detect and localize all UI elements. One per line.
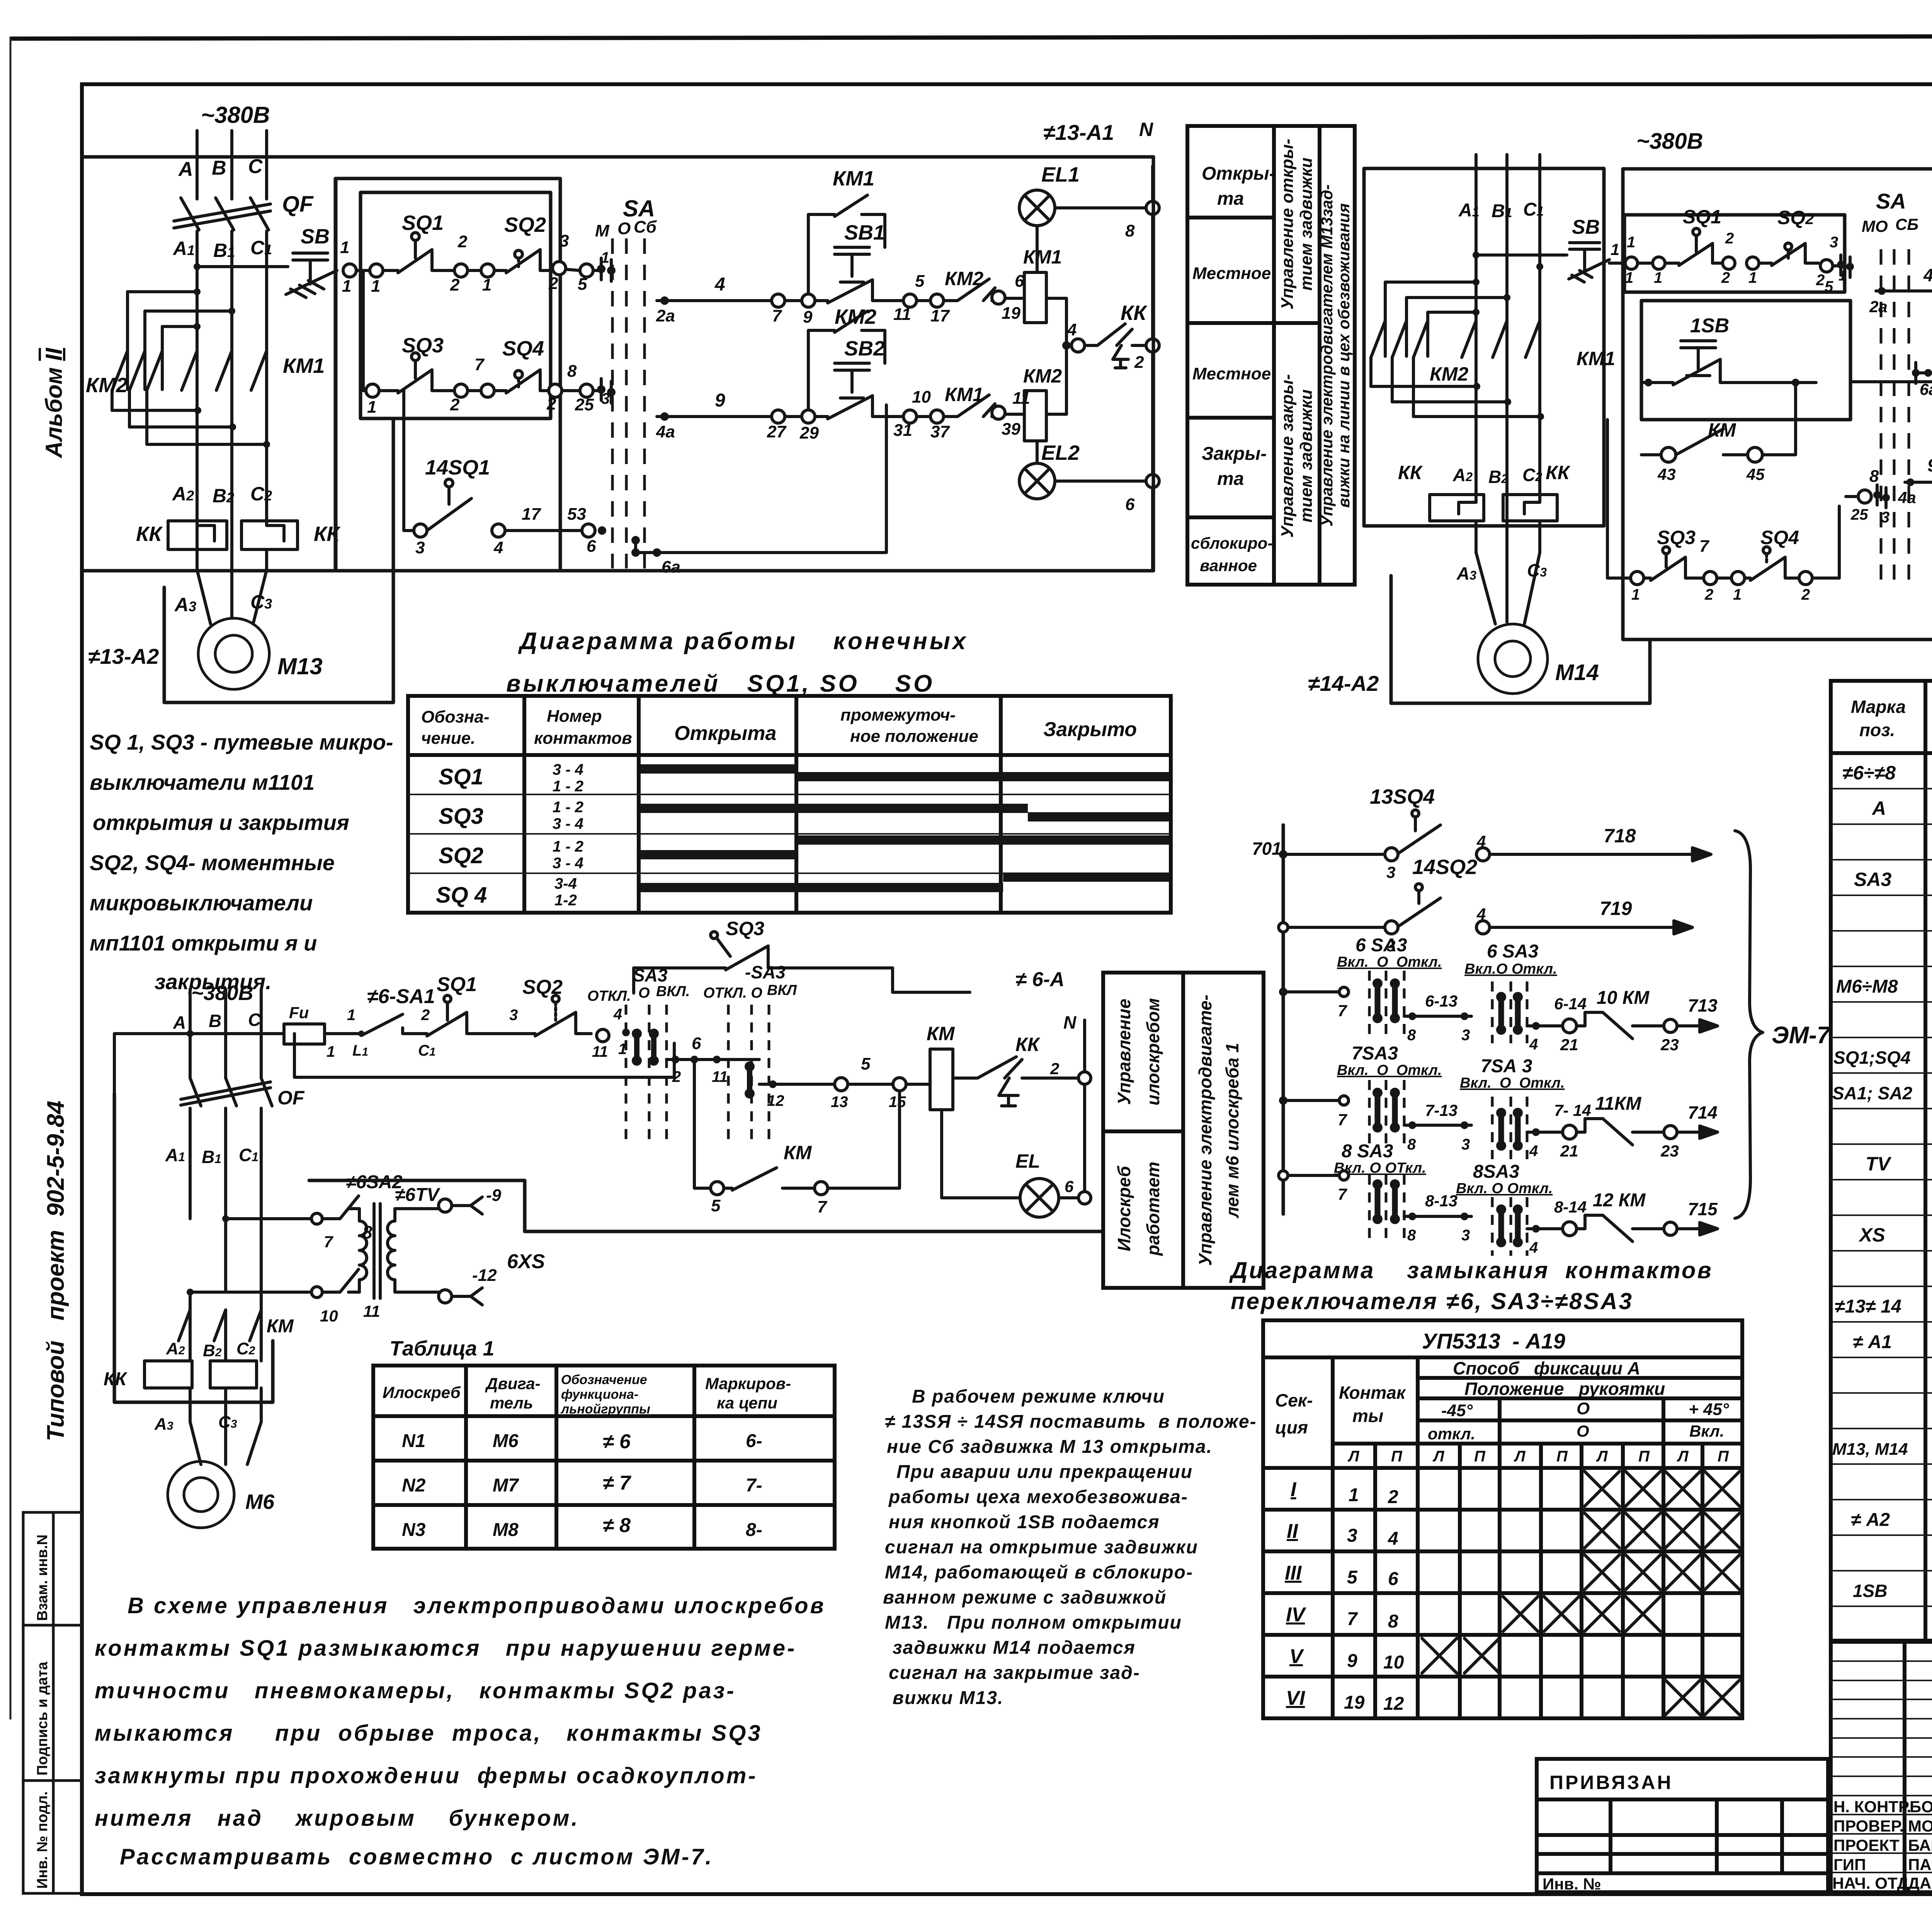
svg-text:3: 3 — [1347, 1526, 1357, 1546]
row A circles 7 9 — [772, 294, 815, 327]
svg-text:ванное: ванное — [1200, 556, 1257, 575]
svg-text:ТV: ТV — [1866, 1153, 1892, 1175]
main bus wire to SB — [194, 263, 288, 270]
svg-text:5: 5 — [1347, 1567, 1358, 1588]
svg-text:8-13: 8-13 — [1425, 1192, 1458, 1210]
selector SA3 dashed group A — [626, 1005, 667, 1142]
svg-text:ДАНИЛОВ: ДАНИЛОВ — [1908, 1874, 1932, 1892]
control outer box 13 — [336, 179, 560, 571]
svg-text:29: 29 — [799, 423, 819, 442]
momentary switch SQ2 — [494, 213, 552, 273]
net 15 wire — [1850, 352, 1932, 408]
svg-text:2: 2 — [450, 276, 460, 294]
svg-text:Вкл. О Откл.: Вкл. О Откл. — [1460, 1075, 1565, 1091]
svg-text:6а: 6а — [662, 558, 680, 577]
row 715 plungers A — [1372, 1179, 1400, 1224]
svg-text:4: 4 — [1923, 265, 1932, 285]
svg-text:2а: 2а — [656, 306, 675, 325]
svg-text:-SА3: -SА3 — [745, 962, 786, 982]
svg-text:работает: работает — [1143, 1162, 1163, 1256]
svg-text:1: 1 — [1625, 269, 1633, 286]
svg-text:21: 21 — [1560, 1142, 1578, 1160]
svg-text:7-13: 7-13 — [1425, 1101, 1458, 1119]
svg-text:замкнуты при прохождении фе: замкнуты при прохождении фермы осадкоупл… — [95, 1763, 758, 1788]
pushbutton SB2 — [815, 337, 903, 419]
svg-text:≠ 13SЯ ÷ 14SЯ поставить в по: ≠ 13SЯ ÷ 14SЯ поставить в положе- — [885, 1412, 1257, 1432]
svg-text:Альбом II: Альбом II — [41, 347, 67, 459]
svg-text:ХS: ХS — [1858, 1224, 1885, 1246]
phase feeder wires 14 — [1476, 155, 1540, 309]
node 11 1 circle 6 — [592, 1006, 630, 1060]
Tablitsa 1 frame — [373, 1366, 835, 1549]
svg-text:ние Сб задвижка М 13 открыта: ние Сб задвижка М 13 открыта. — [887, 1437, 1213, 1457]
svg-text:8-14: 8-14 — [1554, 1198, 1587, 1216]
svg-text:М14, работающей в сблокиро-: М14, работающей в сблокиро- — [885, 1562, 1193, 1583]
svg-text:открытия и закрытия: открытия и закрытия — [93, 810, 349, 835]
svg-text:Л: Л — [1596, 1448, 1608, 1465]
svg-text:О: О — [1577, 1422, 1589, 1440]
svg-text:1 - 2: 1 - 2 — [553, 838, 583, 855]
contactor KM2 NC interlock row A — [944, 268, 995, 301]
svg-text:2: 2 — [1725, 230, 1734, 247]
svg-text:SQ3: SQ3 — [439, 804, 483, 829]
svg-text:Fu: Fu — [289, 1003, 309, 1022]
row 714 net 7-13 — [1404, 1101, 1471, 1153]
svg-text:7: 7 — [1338, 1002, 1347, 1020]
svg-text:SQ4: SQ4 — [502, 337, 544, 360]
UP5313 selector table frame — [1263, 1320, 1742, 1718]
row 714 dashed contacts — [1369, 1080, 1527, 1159]
svg-text:8: 8 — [1407, 1227, 1416, 1244]
svg-text:III: III — [1285, 1562, 1302, 1584]
svg-text:8: 8 — [1407, 1027, 1416, 1044]
svg-text:поз.: поз. — [1859, 720, 1895, 740]
svg-text:М13, М14: М13, М14 — [1832, 1440, 1908, 1459]
svg-text:8: 8 — [1869, 467, 1879, 486]
svg-text:мыкаются при обрыве трос: мыкаются при обрыве троса, контакты SQ3 — [95, 1721, 762, 1746]
svg-text:≠6ТV: ≠6ТV — [395, 1185, 440, 1205]
svg-text:Закры-: Закры- — [1202, 444, 1267, 464]
svg-text:контакты SQ1 размыкаются пр: контакты SQ1 размыкаются при нарушении г… — [95, 1636, 796, 1661]
svg-text:Инв. №: Инв. № — [1543, 1875, 1601, 1893]
svg-text:13: 13 — [831, 1094, 848, 1111]
svg-text:В схеме управления электроп: В схеме управления электроприводами илос… — [128, 1593, 826, 1618]
SQ3 state bars — [641, 804, 1028, 813]
svg-text:SQ3: SQ3 — [1657, 527, 1696, 548]
svg-text:1SВ: 1SВ — [1690, 315, 1729, 337]
svg-text:О: О — [1577, 1399, 1590, 1418]
svg-text:≠ А2: ≠ А2 — [1851, 1510, 1890, 1530]
svg-text:17: 17 — [930, 306, 950, 325]
row 715 output with contact 12KM — [1527, 1190, 1718, 1256]
note text about working mode — [883, 1386, 1257, 1708]
svg-text:SQ 4: SQ 4 — [436, 883, 487, 908]
svg-text:тием задвижки: тием задвижки — [1297, 158, 1316, 291]
svg-text:Способ фиксации А: Способ фиксации А — [1453, 1358, 1640, 1378]
svg-text:КМ2: КМ2 — [835, 305, 876, 328]
svg-text:9: 9 — [1347, 1651, 1357, 1671]
svg-text:5: 5 — [711, 1196, 721, 1215]
svg-text:25: 25 — [1850, 506, 1868, 523]
left margin stamp boxes — [23, 1512, 82, 1893]
transformer enclosure — [309, 1180, 525, 1231]
svg-text:14SQ1: 14SQ1 — [425, 456, 490, 479]
svg-text:В рабочем режиме ключи: В рабочем режиме ключи — [912, 1386, 1165, 1407]
svg-text:2: 2 — [1050, 1060, 1059, 1078]
svg-text:SВ: SВ — [301, 225, 330, 248]
svg-text:SВ2: SВ2 — [844, 337, 885, 360]
row B circles 27 29 — [767, 410, 819, 442]
svg-text:≠13-А2: ≠13-А2 — [88, 644, 159, 668]
svg-text:КМ: КМ — [784, 1142, 812, 1163]
rotated label box 6 — [1103, 973, 1264, 1288]
motor enclosure box — [164, 419, 393, 702]
BOM row lines — [1831, 789, 1932, 1606]
svg-text:1: 1 — [1748, 269, 1757, 286]
svg-text:N: N — [1139, 119, 1153, 140]
svg-text:задвижки М14 подается: задвижки М14 подается — [893, 1638, 1136, 1658]
svg-text:КМ2: КМ2 — [1023, 365, 1062, 387]
svg-text:3 - 4: 3 - 4 — [553, 761, 583, 778]
svg-text:КМ1: КМ1 — [283, 354, 325, 378]
svg-text:13SQ4: 13SQ4 — [1370, 785, 1435, 808]
svg-text:8 SА3: 8 SА3 — [1342, 1141, 1393, 1162]
svg-text:~380В: ~380В — [201, 102, 270, 128]
svg-text:17: 17 — [522, 505, 541, 524]
row B circles 31 37 — [893, 388, 950, 441]
contactor KM2 aux contact (seal-in) — [808, 305, 885, 410]
svg-text:сблокиро-: сблокиро- — [1191, 534, 1273, 552]
svg-text:Л: Л — [1677, 1448, 1689, 1465]
fuse Fu — [284, 1024, 350, 1044]
svg-text:2: 2 — [421, 1007, 430, 1024]
svg-text:Местное: Местное — [1192, 264, 1271, 283]
svg-text:КМ2: КМ2 — [1430, 363, 1468, 385]
svg-text:3: 3 — [1461, 1027, 1470, 1044]
svg-text:2: 2 — [1388, 1487, 1398, 1507]
svg-text:КК: КК — [1121, 301, 1148, 325]
svg-text:Обозначение: Обозначение — [561, 1372, 647, 1387]
svg-text:5: 5 — [861, 1054, 871, 1073]
svg-text:переключателя ≠6, SА3÷≠8SА3: переключателя ≠6, SА3÷≠8SА3 — [1231, 1288, 1633, 1314]
svg-text:вижки на линии в цех обезвожив: вижки на линии в цех обезвоживания — [1335, 203, 1353, 508]
svg-text:О: О — [617, 219, 631, 238]
svg-text:1: 1 — [1654, 269, 1662, 286]
svg-text:Контак: Контак — [1339, 1383, 1406, 1403]
svg-text:Сек-: Сек- — [1275, 1390, 1313, 1410]
svg-text:SQ1: SQ1 — [1683, 206, 1721, 228]
svg-text:ПАВЛОВА: ПАВЛОВА — [1908, 1855, 1932, 1874]
svg-text:Вкл. О Откл.: Вкл. О Откл. — [1456, 1180, 1553, 1197]
svg-text:8SА3: 8SА3 — [1473, 1162, 1519, 1182]
scan left edge line — [10, 37, 12, 1719]
svg-text:N: N — [1063, 1012, 1077, 1032]
svg-text:Диаграмма замыкания контак: Диаграмма замыкания контактов — [1229, 1257, 1713, 1283]
wire from box to SQ3 row 14 — [1606, 420, 1609, 578]
svg-text:лем м6 илоскреба 1: лем м6 илоскреба 1 — [1222, 1043, 1242, 1219]
svg-text:выключатели м1101: выключатели м1101 — [90, 770, 315, 794]
svg-text:≠13-А1: ≠13-А1 — [1043, 120, 1114, 145]
svg-text:8: 8 — [1407, 1136, 1416, 1153]
schematic 13 top border wire — [82, 155, 1153, 159]
svg-text:3: 3 — [1881, 509, 1889, 526]
contactor KM1 aux contact (seal-in) — [808, 167, 885, 294]
svg-text:В: В — [212, 157, 226, 179]
svg-text:39: 39 — [1002, 420, 1020, 439]
svg-text:Л: Л — [1514, 1448, 1526, 1465]
svg-text:СБ: СБ — [1895, 215, 1918, 233]
svg-text:КМ1: КМ1 — [1023, 246, 1062, 268]
svg-text:5: 5 — [915, 272, 925, 291]
svg-text:ния кнопкой 1SВ подается: ния кнопкой 1SВ подается — [889, 1512, 1160, 1532]
svg-text:7SА3: 7SА3 — [1352, 1043, 1398, 1064]
svg-text:8: 8 — [567, 362, 577, 381]
pushbutton 1SB — [1641, 315, 1816, 386]
svg-text:1: 1 — [1627, 234, 1635, 251]
svg-text:≠ А1: ≠ А1 — [1853, 1332, 1892, 1352]
svg-text:БОКОВА: БОКОВА — [1910, 1798, 1932, 1816]
svg-text:1: 1 — [1349, 1485, 1359, 1505]
BOM table frame — [1831, 681, 1932, 1641]
limit switch SQ1 6 — [413, 973, 489, 1059]
svg-text:9: 9 — [1927, 455, 1932, 475]
bypass switch SQ3 over dashed region — [634, 918, 970, 993]
svg-text:Таблица 1: Таблица 1 — [389, 1337, 495, 1360]
svg-text:715: 715 — [1688, 1199, 1718, 1219]
svg-text:КК: КК — [1015, 1034, 1041, 1055]
thermal heaters KK 6 — [104, 1361, 261, 1464]
svg-text:2: 2 — [546, 395, 556, 413]
svg-text:Марка: Марка — [1851, 697, 1906, 717]
svg-text:Двига-: Двига- — [485, 1374, 541, 1393]
svg-text:Инв. № подл.: Инв. № подл. — [34, 1791, 51, 1889]
X marks rows I-III — [1585, 1471, 1740, 1590]
svg-text:КК: КК — [1398, 462, 1423, 483]
svg-text:3: 3 — [1461, 1136, 1470, 1153]
limit switch SQ1 14 — [1665, 206, 1723, 265]
svg-text:7: 7 — [1347, 1609, 1358, 1629]
svg-text:УП5313 - А19: УП5313 - А19 — [1422, 1329, 1565, 1353]
svg-text:Л: Л — [1432, 1448, 1445, 1465]
SA3 contact plungers group A — [632, 1029, 659, 1066]
svg-text:11: 11 — [893, 305, 911, 324]
svg-text:SQ 1, SQ3 - путевые микро-: SQ 1, SQ3 - путевые микро- — [90, 730, 393, 754]
circuit breaker QF — [174, 198, 270, 230]
momentary switch SQ2 14 — [1759, 207, 1818, 265]
svg-text:ПРОВЕР.: ПРОВЕР. — [1833, 1817, 1904, 1835]
X marks row VI — [1665, 1680, 1740, 1715]
svg-text:Вкл.О Откл.: Вкл.О Откл. — [1464, 961, 1557, 977]
svg-text:МОСЕЕНКО: МОСЕЕНКО — [1908, 1817, 1932, 1835]
motor leads 14 — [1476, 521, 1540, 624]
control outer box 14 — [1623, 169, 1932, 639]
svg-text:3 - 4: 3 - 4 — [553, 855, 583, 872]
svg-text:8: 8 — [1125, 221, 1135, 240]
svg-text:ка цепи: ка цепи — [717, 1394, 777, 1412]
signature rows names — [1832, 1798, 1932, 1892]
svg-text:МО: МО — [1862, 217, 1888, 235]
svg-text:10 КМ: 10 КМ — [1597, 988, 1650, 1008]
svg-text:II: II — [1287, 1520, 1298, 1543]
svg-text:Управление закры-: Управление закры- — [1278, 374, 1297, 537]
svg-text:SА1; SА2: SА1; SА2 — [1832, 1083, 1912, 1103]
phase stubs A B C 6 — [190, 989, 261, 1078]
limit switch diagram table frame — [408, 696, 1171, 913]
svg-text:ГИП: ГИП — [1833, 1855, 1866, 1874]
svg-text:сигнал на открытие задвижки: сигнал на открытие задвижки — [885, 1537, 1198, 1558]
svg-text:та: та — [1217, 189, 1244, 209]
svg-text:SQ1: SQ1 — [402, 211, 444, 235]
svg-text:11: 11 — [712, 1068, 728, 1085]
control box 6 borders — [525, 992, 1103, 1231]
svg-text:Положение рукоятки: Положение рукоятки — [1464, 1379, 1665, 1399]
svg-text:23: 23 — [1660, 1036, 1679, 1054]
svg-text:1: 1 — [1631, 586, 1640, 603]
motor M14 — [1478, 624, 1548, 694]
row 713 bus stub — [1279, 987, 1349, 1020]
svg-text:6: 6 — [587, 537, 596, 556]
svg-text:М6÷М8: М6÷М8 — [1836, 976, 1898, 997]
svg-text:контактов: контактов — [534, 729, 632, 748]
limit switch SQ1 — [383, 211, 454, 273]
thermal relay KK trip contact — [1067, 301, 1148, 372]
svg-text:-45°: -45° — [1441, 1401, 1473, 1420]
svg-text:12: 12 — [1383, 1694, 1404, 1714]
svg-text:719: 719 — [1600, 898, 1632, 919]
svg-text:Сб: Сб — [634, 218, 657, 236]
svg-text:Управление откры-: Управление откры- — [1278, 139, 1297, 310]
svg-text:8: 8 — [362, 1222, 372, 1242]
KM2 to KM1 reconnect links — [112, 407, 270, 448]
svg-text:Управление электродвигателем: Управление электродвигателем М13зад- — [1318, 184, 1336, 526]
svg-text:4: 4 — [1476, 832, 1486, 850]
svg-text:1-2: 1-2 — [554, 892, 577, 909]
svg-text:1 - 2: 1 - 2 — [553, 778, 583, 795]
svg-text:2: 2 — [672, 1068, 681, 1085]
thermal relay KK heaters 14 — [1430, 495, 1557, 521]
svg-text:1: 1 — [482, 276, 492, 294]
svg-text:SQ4: SQ4 — [1760, 527, 1799, 548]
svg-text:КМ1: КМ1 — [945, 384, 983, 405]
SQ1 state bars — [641, 764, 797, 774]
svg-text:≠ 8: ≠ 8 — [603, 1514, 631, 1537]
svg-text:3-4: 3-4 — [554, 875, 577, 892]
svg-text:6 SА3: 6 SА3 — [1487, 941, 1539, 962]
row A circle 19 and coil node 6 — [992, 272, 1024, 323]
svg-text:SQ2, SQ4- моментные: SQ2, SQ4- моментные — [90, 850, 335, 875]
svg-text:V: V — [1289, 1645, 1304, 1668]
momentary switch SQ4 — [494, 337, 549, 393]
thermal relay KK 6 — [978, 1034, 1078, 1106]
row2 feed wire — [363, 270, 366, 391]
svg-text:П: П — [1638, 1448, 1650, 1465]
contactor coil KM1 — [1024, 272, 1066, 345]
svg-text:П: П — [1391, 1448, 1403, 1465]
svg-text:1: 1 — [367, 398, 376, 417]
branch switch 13SQ4 — [1279, 785, 1711, 881]
svg-text:КК: КК — [1546, 462, 1571, 483]
svg-text:1: 1 — [1733, 586, 1742, 603]
svg-text:27: 27 — [767, 422, 787, 441]
schematic 13 bottom border wire — [336, 569, 1153, 573]
svg-text:3 - 4: 3 - 4 — [553, 815, 583, 832]
signal lamp EL 6 — [942, 1110, 1078, 1217]
row2 mid circles — [450, 355, 494, 414]
svg-text:11: 11 — [363, 1302, 380, 1320]
svg-text:31: 31 — [893, 421, 912, 440]
row 713 dashed contacts — [1369, 971, 1527, 1043]
svg-text:микровыключатели: микровыключатели — [90, 891, 313, 915]
svg-text:2: 2 — [457, 232, 468, 251]
svg-text:37: 37 — [930, 422, 950, 441]
net 12 13 15 wires — [759, 1054, 930, 1111]
svg-text:3: 3 — [1386, 863, 1395, 881]
contactor KM2 main contacts — [112, 288, 235, 444]
row 714 output with contact 11KM — [1527, 1094, 1718, 1160]
svg-text:10: 10 — [912, 388, 931, 406]
svg-text:Местное: Местное — [1192, 364, 1271, 383]
svg-text:4: 4 — [613, 1006, 622, 1023]
svg-text:Закрыто: Закрыто — [1043, 718, 1137, 741]
svg-text:1: 1 — [340, 238, 349, 257]
neutral N 6 — [1063, 1012, 1091, 1204]
SQ2 state bars — [797, 835, 1169, 845]
contactor coil KM 6 — [930, 1049, 978, 1110]
mode table 13 frame — [1187, 126, 1355, 585]
svg-text:≠6-SА1: ≠6-SА1 — [367, 985, 435, 1008]
power box border 14 — [1364, 168, 1604, 526]
svg-text:SQ1: SQ1 — [437, 973, 477, 996]
row A circles 11 17 — [893, 272, 950, 325]
svg-text:чение.: чение. — [421, 729, 475, 748]
svg-text:SQ1: SQ1 — [439, 764, 483, 789]
svg-text:Илоскреб: Илоскреб — [383, 1383, 461, 1401]
svg-text:7: 7 — [324, 1233, 333, 1251]
phase feeder wires A B C — [197, 131, 267, 266]
svg-text:КК: КК — [136, 522, 163, 546]
selector switch SA dashed 14 — [1881, 249, 1909, 580]
contactor KM1 main contacts 14 — [1462, 267, 1540, 549]
svg-text:≠14-А2: ≠14-А2 — [1308, 671, 1379, 696]
junction cluster 8 25 3 14 — [1846, 467, 1890, 526]
svg-text:IV: IV — [1286, 1604, 1306, 1626]
svg-text:А: А — [178, 158, 193, 180]
svg-text:7: 7 — [772, 306, 782, 325]
switch row 6SA3 group labels — [1337, 935, 1557, 977]
svg-text:SА: SА — [1876, 189, 1906, 213]
transformer 6TV — [349, 1185, 440, 1320]
svg-text:Л: Л — [1347, 1448, 1360, 1465]
svg-text:≠ 6: ≠ 6 — [603, 1430, 631, 1453]
svg-text:2: 2 — [1134, 353, 1144, 372]
svg-text:SВ1: SВ1 — [844, 221, 885, 244]
SQ4 state bars — [1003, 872, 1169, 882]
svg-text:4: 4 — [1529, 1239, 1538, 1256]
row1 exit circles and junction — [548, 231, 616, 294]
net 6 wire with nodes 2 6 11 — [667, 1034, 759, 1085]
svg-text:I: I — [1291, 1478, 1297, 1501]
power box border — [82, 179, 335, 571]
title block left rows — [1831, 1661, 1932, 1872]
svg-text:мп1101 открыти я и: мп1101 открыти я и — [90, 931, 317, 955]
row B circle 39 and coil node 11 — [992, 389, 1030, 439]
net 4a wire row B — [656, 390, 772, 441]
svg-text:4: 4 — [493, 538, 503, 557]
svg-text:SQ2: SQ2 — [439, 843, 483, 868]
main bus 6 — [114, 1030, 284, 1094]
svg-text:713: 713 — [1688, 995, 1718, 1015]
svg-text:7: 7 — [1338, 1111, 1347, 1129]
